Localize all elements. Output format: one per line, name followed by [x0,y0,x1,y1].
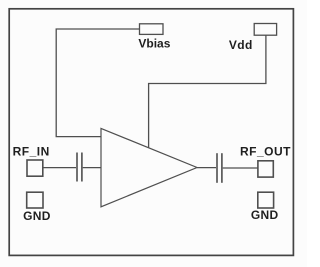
pad Vdd [254,24,276,36]
pad RF_IN [27,160,43,176]
wire Vdd to amp top [149,35,266,148]
wire capacitor C2 to RF_OUT pad [223,167,258,169]
capacitor C1 [77,153,82,182]
wire Vbias to amp input [56,29,139,137]
svg-text:GND: GND [251,208,279,222]
pad RF_OUT [258,161,273,177]
wire capacitor C1 to amp [83,167,101,169]
wire amp output to capacitor C2 [197,167,216,169]
pad GND right [258,192,274,208]
pad GND left [27,192,43,208]
op-amp U1 [101,128,197,206]
svg-text:Vdd: Vdd [229,38,253,52]
svg-text:RF_IN: RF_IN [13,145,50,159]
svg-text:RF_OUT: RF_OUT [240,145,291,159]
wire RF_IN pad to capacitor C1 [43,167,76,169]
pad Vbias [140,24,164,35]
svg-text:GND: GND [23,209,51,223]
capacitor C2 [217,153,222,183]
svg-text:Vbias: Vbias [138,37,170,51]
